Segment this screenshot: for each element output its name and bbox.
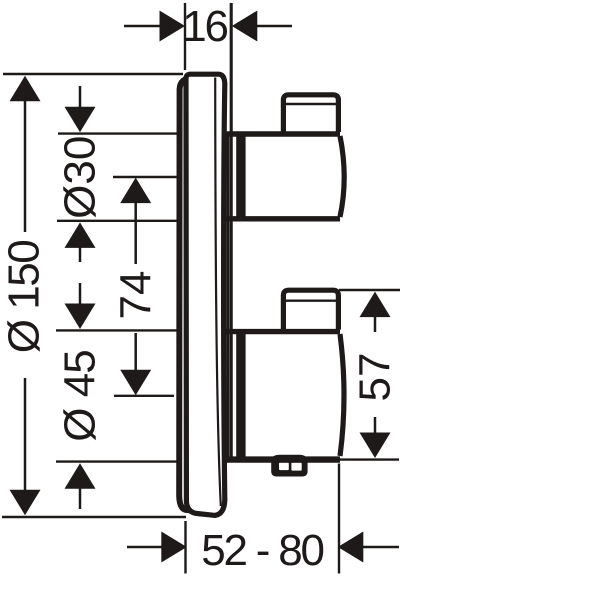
svg-text:52 - 80: 52 - 80 [201, 526, 323, 575]
svg-text:Ø30: Ø30 [56, 136, 105, 219]
top handle spacer bar (between plate and handle) [236, 132, 245, 222]
dim 52-80 right arrow [338, 532, 399, 563]
dim 74 top arrow [120, 178, 151, 264]
escutcheon plate face (inner rounded contour) [186, 74, 225, 515]
dim 57 top extension line [339, 289, 400, 291]
bottom handle body right edge [340, 334, 344, 456]
bottom handle tab (small catch below) [271, 455, 307, 477]
dim Ø150 label [0, 241, 49, 353]
bottom handle body top edge [226, 329, 340, 334]
dim Ø45 bottom extension line [56, 460, 178, 462]
dim 74 bottom arrow [120, 333, 151, 395]
bottom handle tab white cells [279, 463, 302, 471]
top handle step (small knob on top) [283, 95, 338, 132]
dim Ø30 bottom arrow [65, 222, 96, 262]
dim Ø45 top extension line [56, 329, 178, 331]
top handle body bottom edge [226, 216, 340, 221]
svg-text:16: 16 [182, 2, 227, 51]
dim Ø30 top arrow [65, 86, 96, 132]
top handle step inner line [286, 103, 336, 105]
dim Ø150 bottom extension line [2, 516, 186, 518]
escutcheon plate rim (outer contour, left and bottom) [179, 78, 192, 511]
dim 16 right arrow [232, 11, 292, 42]
dim Ø45 label [56, 350, 105, 441]
svg-text:57: 57 [351, 353, 400, 402]
bottom handle step inner line [286, 300, 336, 302]
concealed housing edge behind handles [226, 135, 229, 460]
bottom handle spacer bar (between plate and handle) [236, 329, 245, 462]
dim Ø150 top extension line [3, 73, 183, 75]
dim 52-80 right extension line [338, 464, 340, 574]
dim 52-80 left extension line [184, 521, 186, 574]
dim 16 label [182, 2, 227, 51]
dim 74 top extension line [113, 176, 182, 178]
dim Ø150 top arrow [10, 76, 41, 232]
svg-text:74: 74 [111, 271, 160, 320]
top handle body right edge [340, 136, 344, 217]
bottom handle body bottom edge [226, 456, 340, 462]
dim 57 bottom extension line [340, 458, 399, 460]
bottom handle step (small knob on top) [283, 290, 338, 329]
dim 52-80 left arrow [127, 532, 187, 563]
dim 74 bottom extension line [114, 395, 174, 397]
dim Ø45 top arrow [65, 283, 96, 329]
dim Ø30 bottom extension line [57, 220, 182, 222]
dim 57 top arrow [360, 292, 391, 332]
dim 52-80 label [201, 526, 323, 575]
svg-text:Ø 45: Ø 45 [56, 350, 105, 441]
dim 16 left extension line [184, 3, 186, 70]
dim 16 left arrow [124, 11, 185, 42]
dim Ø150 bottom arrow [10, 378, 41, 515]
dim Ø30 label [56, 136, 105, 219]
top handle body top edge [226, 131, 340, 136]
dim 57 label [351, 353, 400, 402]
svg-text:Ø 150: Ø 150 [0, 241, 49, 353]
wall line (back of escutcheon, also right extension of dim 16) [230, 3, 233, 461]
dim 74 label [111, 271, 160, 320]
plate face edge line (thin inner line) [215, 78, 221, 507]
dim Ø45 bottom arrow [65, 463, 96, 509]
dim Ø30 top extension line [58, 132, 182, 134]
dim 57 bottom arrow [360, 417, 391, 458]
